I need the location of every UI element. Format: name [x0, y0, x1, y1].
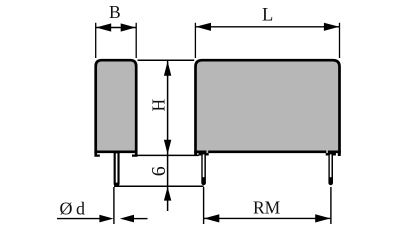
front view left foot: [194, 151, 197, 156]
dimension RM right arrowhead: [315, 214, 330, 222]
dimension RM left arrowhead: [204, 214, 219, 222]
dimension 6 line: [167, 155, 169, 212]
side view lead: [114, 151, 120, 186]
svg-text:B: B: [109, 2, 121, 22]
dimension L line: [195, 26, 339, 28]
dimension H bottom arrowhead: [164, 140, 171, 155]
lead end line: [114, 185, 204, 187]
svg-text:H: H: [149, 99, 169, 112]
dimension Od right arrowhead: [120, 215, 134, 223]
dimension Od left tail line: [57, 218, 101, 220]
front view right lead: [328, 151, 333, 185]
dimension H top arrowhead: [164, 61, 171, 75]
front view left lead standoff bump: [199, 151, 209, 156]
dimension B left arrowhead: [96, 23, 111, 31]
lead diameter extension line: [113, 187, 115, 224]
svg-text:6: 6: [148, 166, 170, 176]
side view left foot: [94, 151, 99, 157]
capacitor body front view: [196, 60, 340, 152]
side view right foot: [132, 151, 138, 157]
dimension L right arrowhead: [324, 23, 339, 31]
front view right foot: [338, 151, 341, 156]
dimension L extension lines: [194, 23, 196, 58]
dimension Od left arrowhead: [99, 215, 113, 223]
dimension B extension lines: [95, 23, 97, 58]
seating plane extension line: [138, 154, 199, 156]
svg-text:RM: RM: [253, 198, 281, 218]
svg-text:L: L: [262, 5, 273, 25]
capacitor body side view: [96, 60, 137, 152]
H top extension line: [138, 59, 195, 61]
dimension H line: [167, 61, 169, 155]
dimension RM left extension line: [203, 187, 205, 224]
front view left lead: [201, 151, 206, 185]
dimension B right arrowhead: [121, 23, 136, 31]
dimension Od right tail line: [134, 218, 148, 220]
front view right lead standoff bump: [326, 151, 336, 156]
dimension 6 lower arrowhead: [164, 187, 171, 201]
dimension RM right extension line: [330, 187, 332, 224]
dimension RM line: [204, 217, 331, 219]
dimension L left arrowhead: [196, 23, 211, 31]
svg-text:Ød: Ød: [60, 198, 89, 218]
dimension B line: [96, 27, 137, 29]
